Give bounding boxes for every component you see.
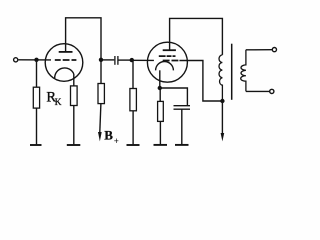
output terminal top <box>272 48 276 52</box>
node primary bottom <box>220 99 224 103</box>
resistor R4 <box>158 101 164 121</box>
wire junction down to R1 <box>36 60 38 87</box>
wire secondary bottom to terminal <box>246 90 270 92</box>
transformer T1 primary <box>219 55 222 101</box>
V2 plate <box>163 49 176 51</box>
wire node down to R2 <box>100 60 102 84</box>
wire node to R4 <box>159 88 161 101</box>
resistor R3 <box>130 89 137 111</box>
ground <box>30 144 42 146</box>
node V2 grid junction <box>130 58 134 62</box>
wire V2 screen to primary bottom <box>179 61 222 102</box>
wire secondary top to terminal <box>246 49 272 51</box>
svg-text:B: B <box>104 127 113 142</box>
svg-text:+: + <box>114 136 119 146</box>
V2 cathode <box>156 62 174 71</box>
svg-text:K: K <box>55 98 62 108</box>
V2 grid 1 (dashed) <box>159 55 176 57</box>
capacitor C1 <box>114 56 116 65</box>
node cathode junction <box>158 86 162 90</box>
resistor R1 <box>33 87 39 108</box>
ground <box>154 144 168 146</box>
wire node to C2 <box>160 88 188 106</box>
wire V2 cathode down <box>159 70 161 88</box>
ground <box>175 144 189 146</box>
wire node to V2 grid <box>132 59 154 61</box>
wire input to V1 grid <box>19 59 52 61</box>
wire V2 plate up over to transformer primary <box>170 18 223 55</box>
resistor RK <box>71 86 78 106</box>
resistor R2 plate load <box>98 84 104 104</box>
wire C2 to ground <box>181 109 183 144</box>
output terminal bottom <box>270 89 274 93</box>
tube V2 envelope <box>147 42 187 82</box>
arrow to B+ <box>98 132 102 141</box>
wire V1 cathode to RK <box>73 74 75 86</box>
wire R1 to ground <box>36 108 38 144</box>
V1 plate <box>59 51 73 53</box>
V1 cathode <box>55 68 74 78</box>
wire R4 to ground <box>159 121 161 144</box>
node grid junction <box>34 58 38 62</box>
ground <box>67 144 81 146</box>
wire node to C1 <box>101 59 114 61</box>
wire R3 to ground <box>132 111 134 145</box>
wire V1 plate up over to node <box>66 18 101 60</box>
node plate junction <box>99 58 103 62</box>
wire C1 to grid node <box>119 59 132 61</box>
transformer T1 secondary <box>241 50 246 92</box>
wire primary bottom down <box>221 101 223 133</box>
tube V1 envelope <box>45 44 83 82</box>
V1 grid (dashed) <box>55 59 77 61</box>
wire node down to R3 <box>132 60 134 88</box>
wire RK to ground <box>73 106 75 145</box>
ground <box>127 144 140 146</box>
V2 grid 2 (dashed) <box>163 60 179 62</box>
wire R2 down to B+ arrow <box>100 104 101 132</box>
arrow to supply <box>221 133 225 141</box>
capacitor C2 <box>174 105 191 107</box>
transformer core <box>231 44 233 100</box>
input terminal J1 <box>14 58 18 62</box>
